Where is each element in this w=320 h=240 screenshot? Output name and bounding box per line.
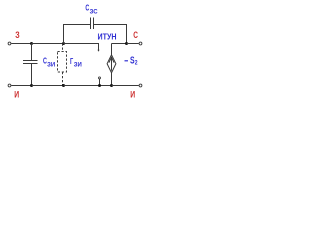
resistor r_ЗИ (dashed, gate-source resistance): [58, 44, 67, 86]
background: [0, 0, 157, 104]
terminal З (gate): [8, 42, 11, 45]
svg-text:ЗИ: ЗИ: [74, 62, 82, 68]
terminal И right (source): [139, 84, 142, 87]
label C_ЗС value: [85, 3, 98, 15]
node C (drain junction): [125, 42, 128, 45]
svg-text:ИТУН: ИТУН: [98, 33, 117, 42]
wire: gate line from terminal З to node A: [11, 43, 31, 45]
terminal С (drain): [139, 42, 142, 45]
wire: ИТУН control return tick: [99, 79, 101, 86]
terminal: ИТУН control return small circle: [99, 77, 101, 79]
capacitor C_ЗИ (gate-source capacitance): [23, 44, 38, 86]
node D (C_ЗИ bottom junction): [30, 84, 33, 87]
label -S2 (VCCS transconductance value): [125, 56, 139, 67]
wire: bottom rail terminal И to node D: [11, 85, 31, 87]
svg-text:И: И: [130, 89, 135, 99]
label C_ЗИ value: [43, 57, 55, 69]
terminal И left (source): [8, 84, 11, 87]
capacitor C_ЗС (gate-drain capacitance): [91, 18, 94, 30]
wire: ИТУН control tap with down arrow: [64, 44, 100, 52]
node A (gate / C_ЗИ junction): [30, 42, 33, 45]
wire: C_ЗС right plate down to node C: [94, 25, 127, 44]
wire: gate line from node A to node B: [32, 43, 64, 45]
wire: node B up to C_ЗС left plate: [64, 25, 91, 44]
wire: drain line from ИТУН to node C: [112, 43, 127, 45]
wire: bottom rail node F to terminal И right: [112, 85, 139, 87]
wire: bottom rail node D to node E: [32, 85, 64, 87]
svg-text:С: С: [133, 30, 138, 40]
VCCS U1 ИТУН (diamond dependent current source): [107, 44, 116, 86]
node F (ИТУН bottom junction): [110, 84, 113, 87]
wire: bottom rail node E to node F: [64, 85, 112, 87]
svg-text:ЗИ: ЗИ: [47, 63, 55, 69]
svg-text:З: З: [15, 30, 20, 40]
label r_ЗИ value: [70, 56, 82, 68]
wire: node C to terminal С: [127, 43, 139, 45]
node E (r_ЗИ bottom junction): [62, 84, 65, 87]
svg-text:И: И: [14, 89, 19, 99]
node G (control return junction): [98, 84, 101, 87]
node B (gate / r_ЗИ / C_ЗС junction): [62, 42, 65, 45]
svg-text:ЗС: ЗС: [90, 10, 99, 16]
